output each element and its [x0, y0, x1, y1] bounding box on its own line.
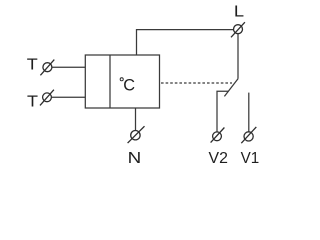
svg-text:N: N: [128, 150, 142, 167]
svg-text:V2: V2: [209, 150, 228, 167]
svg-text:T: T: [27, 56, 38, 73]
svg-text:V1: V1: [241, 150, 260, 167]
svg-text:T: T: [27, 93, 38, 110]
svg-text:C: C: [123, 76, 135, 95]
svg-text:L: L: [234, 4, 244, 21]
